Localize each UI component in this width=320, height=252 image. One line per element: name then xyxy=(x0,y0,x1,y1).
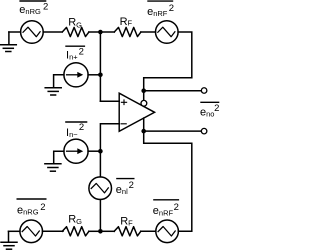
svg-text:RF: RF xyxy=(120,16,133,28)
label I_n-^2 xyxy=(65,122,87,139)
svg-text:2: 2 xyxy=(40,202,45,213)
voltage noise source e_nRF (top) xyxy=(156,21,179,44)
ground (I_n-) xyxy=(45,164,61,172)
junction node B xyxy=(98,229,103,234)
resistor R_F (top) xyxy=(114,27,141,36)
voltage noise source e_nRG (top) xyxy=(21,21,44,44)
label I_n+^2 xyxy=(65,46,85,61)
wire e_ni to bottom node B xyxy=(99,200,101,232)
resistor R_G (bottom) xyxy=(62,227,89,236)
wire ground to e_nRG bottom xyxy=(9,230,20,232)
wire I_n- left lead xyxy=(54,151,64,163)
ground (top-left) xyxy=(0,32,16,52)
junction non-inverting output node xyxy=(141,129,146,134)
wire inverted output tap (top slope) up to node xyxy=(143,91,145,107)
wire R_G to node A xyxy=(89,31,101,33)
wire ground to e_nRG top xyxy=(9,31,21,33)
junction inverting output node xyxy=(141,88,146,93)
svg-text:2: 2 xyxy=(79,122,84,133)
junction I_n+ node xyxy=(98,73,103,78)
label e_ni^2 (input noise) xyxy=(116,179,135,196)
junction node A xyxy=(98,30,103,35)
wire non-inverted output tap (bottom slope) down to node xyxy=(143,118,145,131)
label e_nRF^2 (bottom) xyxy=(153,200,179,218)
label e_no^2 (output noise) xyxy=(200,102,219,118)
terminal (top output) xyxy=(201,88,207,94)
feedback wire e_nRF top to inverting output node xyxy=(144,32,192,91)
current noise source I_n+ xyxy=(64,63,88,87)
terminal (bottom output) xyxy=(201,128,207,134)
wire - input into op-amp, down to e_ni xyxy=(100,124,119,177)
svg-text:RF: RF xyxy=(120,216,133,228)
wire e_nRG to R_G (bottom) xyxy=(43,230,64,232)
wire R_F to e_nRF (bottom) xyxy=(141,230,156,232)
label e_nRG^2 (top) xyxy=(19,1,48,16)
wire I_n+ left lead xyxy=(54,75,64,88)
ground (I_n+) xyxy=(45,88,61,95)
wire top output to terminal xyxy=(144,90,201,92)
wire I_n- right lead to node column xyxy=(88,150,100,152)
voltage noise source e_nRF (bottom) xyxy=(156,220,179,243)
wire e_nRG to R_G (top) xyxy=(43,31,62,33)
svg-text:2: 2 xyxy=(174,202,179,213)
wire I_n+ right lead to node column xyxy=(88,74,100,76)
svg-text:2: 2 xyxy=(129,180,134,191)
junction I_n- node xyxy=(98,149,103,154)
wire node A down to + input xyxy=(99,32,101,101)
ground (bottom-left) xyxy=(1,231,17,249)
wire bottom output to terminal xyxy=(144,130,201,132)
label e_nRG^2 (bottom) xyxy=(17,199,47,217)
wire node B to R_F (bottom) xyxy=(100,230,114,232)
wire node A to R_F (top) xyxy=(100,31,114,33)
op-amp U1 (fully differential) xyxy=(119,93,154,131)
resistor R_G (top) xyxy=(62,27,89,36)
svg-text:2: 2 xyxy=(79,46,84,57)
svg-text:2: 2 xyxy=(169,3,174,14)
svg-text:2: 2 xyxy=(214,103,219,114)
label e_nRF^2 (top) xyxy=(147,1,174,18)
feedback wire bottom output to e_nRF bottom xyxy=(144,131,192,231)
current noise source I_n- xyxy=(64,139,88,163)
svg-text:2: 2 xyxy=(43,2,48,13)
wire R_F to e_nRF (top) xyxy=(141,31,156,33)
output bubble (inverting output) xyxy=(141,100,147,106)
voltage noise source e_nRG (bottom) xyxy=(20,220,43,243)
wire R_G to node B xyxy=(89,230,101,232)
resistor R_F (bottom) xyxy=(114,227,141,236)
wire + input into op-amp xyxy=(100,100,119,102)
voltage noise source e_ni (input-referred) xyxy=(89,177,112,200)
